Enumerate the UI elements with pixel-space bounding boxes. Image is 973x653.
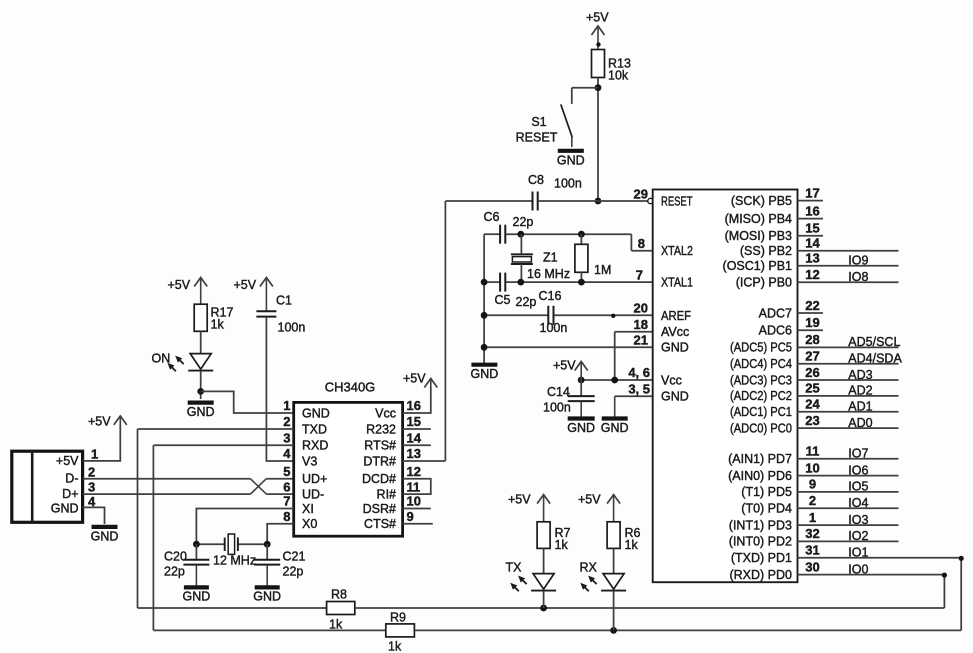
MCU pin 31 (TXD)PD1 row <box>731 543 961 566</box>
svg-text:DSR#: DSR# <box>363 502 396 516</box>
svg-text:+5V: +5V <box>586 11 609 25</box>
svg-text:10: 10 <box>407 494 421 509</box>
svg-text:C1: C1 <box>276 294 292 308</box>
svg-text:7: 7 <box>283 494 290 509</box>
svg-text:5: 5 <box>283 464 290 479</box>
svg-text:10k: 10k <box>608 69 629 83</box>
svg-text:17: 17 <box>805 185 819 200</box>
MCU pin 21 GND label <box>634 333 689 355</box>
wire XTAL2 top line right segment <box>506 233 632 235</box>
wire DTR# vertical to C8 <box>444 201 446 461</box>
svg-text:19: 19 <box>805 315 819 330</box>
junction +5V/C14/Vcc node <box>578 377 585 384</box>
svg-text:2: 2 <box>88 464 95 479</box>
capacitor C1 100n <box>256 311 276 316</box>
capacitor C14 100n <box>568 396 595 401</box>
resistor R8 1k <box>327 602 355 615</box>
svg-text:RESET: RESET <box>516 131 558 145</box>
svg-text:(ICP) PB0: (ICP) PB0 <box>736 276 792 290</box>
svg-text:(ADC3) PC3: (ADC3) PC3 <box>730 373 792 387</box>
junction crystal-left/C20 <box>193 541 200 548</box>
svg-text:RESET: RESET <box>661 194 693 208</box>
CH340G pin 2 TXD label <box>283 414 327 436</box>
wire CH340 RXD pin3 line <box>153 444 293 446</box>
svg-text:GND: GND <box>567 421 595 435</box>
svg-text:14: 14 <box>407 430 422 445</box>
wire R232 pin15 stub <box>403 428 431 430</box>
svg-text:3: 3 <box>283 430 290 445</box>
wire IO1 wrap-around (MCU TXD to R9 line) <box>960 558 962 631</box>
IC U2 CH340G body <box>294 402 403 536</box>
svg-text:100n: 100n <box>278 321 306 335</box>
svg-text:15: 15 <box>407 414 421 429</box>
crystal Y1 12 MHz <box>213 534 256 568</box>
junction AVcc/Vcc <box>611 377 618 384</box>
svg-text:Vcc: Vcc <box>375 406 396 420</box>
svg-text:100n: 100n <box>554 177 582 191</box>
capacitor C8 100n <box>533 192 538 211</box>
wire R6 to RX LED <box>613 548 615 573</box>
svg-text:C20: C20 <box>164 550 187 564</box>
MCU pin 20 AREF label <box>634 301 692 323</box>
svg-text:1k: 1k <box>329 618 343 632</box>
svg-text:+5V: +5V <box>578 493 601 507</box>
wire R13 bottom to RESET node <box>597 78 599 202</box>
svg-text:4, 6: 4, 6 <box>628 365 650 380</box>
CH340G pin 5 UD+ label <box>283 464 327 486</box>
svg-text:2: 2 <box>283 414 290 429</box>
svg-text:+5V: +5V <box>168 278 191 292</box>
wire TXD vertical <box>137 429 139 608</box>
wire XTAL1 line left segment <box>484 281 499 283</box>
wire C14 top stub <box>580 380 582 396</box>
wire R9 line left segment <box>153 629 385 631</box>
svg-text:GND: GND <box>183 590 211 604</box>
svg-text:27: 27 <box>805 349 819 364</box>
svg-text:(MISO) PB4: (MISO) PB4 <box>725 212 792 226</box>
power +5V (USB VBUS) <box>88 415 127 429</box>
MCU pin 3,5 GND label <box>628 382 688 404</box>
ground (MCU GND 3,5) <box>601 396 629 435</box>
svg-text:24: 24 <box>805 397 820 412</box>
ground (crystal rail) <box>471 365 499 382</box>
svg-text:22p: 22p <box>513 215 534 229</box>
wire USB pin1 to +5V <box>83 424 121 461</box>
svg-text:TX: TX <box>506 561 523 575</box>
wire XTAL2 jog down <box>630 234 632 251</box>
svg-text:32: 32 <box>805 526 819 541</box>
junction 1M top node <box>578 231 585 238</box>
svg-text:IO4: IO4 <box>848 496 868 510</box>
wire DSR# pin10 stub <box>403 508 431 510</box>
svg-text:V3: V3 <box>302 454 317 468</box>
junction ON LED / CH340 GND net <box>197 388 204 395</box>
junction crystal top / C6 node <box>517 231 524 238</box>
CH340G pin 8 X0 label <box>283 509 317 531</box>
svg-text:11: 11 <box>407 479 421 494</box>
svg-text:25: 25 <box>805 381 819 396</box>
svg-text:AREF: AREF <box>661 309 691 323</box>
wire GND pin21 line <box>484 346 653 348</box>
svg-text:+5V: +5V <box>553 359 576 373</box>
ground (C21) <box>253 565 281 604</box>
svg-text:10: 10 <box>805 460 819 475</box>
MCU pin 22 ADC7 row <box>759 298 823 321</box>
svg-text:3: 3 <box>88 480 95 495</box>
wire XTAL2 top line left segment <box>484 233 499 235</box>
svg-text:(RXD) PD0: (RXD) PD0 <box>729 568 792 582</box>
wire AREF line right segment <box>554 314 653 316</box>
CH340G pin 12 DCD# label <box>362 464 421 486</box>
junction IO1 wrap corner <box>959 556 964 561</box>
svg-text:(ADC2) PC2: (ADC2) PC2 <box>730 389 792 403</box>
wire AVcc to Vcc vertical <box>614 332 616 380</box>
svg-text:15: 15 <box>805 221 819 236</box>
power +5V (TX LED) <box>508 493 550 522</box>
svg-text:(AIN1) PD7: (AIN1) PD7 <box>728 452 792 466</box>
svg-text:GND: GND <box>91 529 119 543</box>
wire crystal right link <box>239 543 268 545</box>
MCU pin 11 (AIN1)PD7 row <box>728 444 898 467</box>
capacitor C6 22p <box>500 225 505 244</box>
svg-text:IO1: IO1 <box>848 546 868 560</box>
resistor 1M (crystal bias) <box>575 234 611 282</box>
wire D-/D+ crossover <box>250 479 266 494</box>
MCU pin 12 (ICP)PB0 row <box>736 267 899 290</box>
crystal Z1 16 MHz <box>511 234 533 282</box>
svg-text:RX: RX <box>580 561 598 575</box>
MCU pin 30 (RXD)PD0 row <box>729 559 944 582</box>
svg-text:100n: 100n <box>543 401 571 415</box>
svg-text:12: 12 <box>407 464 421 479</box>
svg-text:GND: GND <box>253 590 281 604</box>
svg-text:C5: C5 <box>495 293 511 307</box>
svg-text:(SCK) PB5: (SCK) PB5 <box>731 194 792 208</box>
svg-text:21: 21 <box>634 333 648 348</box>
svg-text:1k: 1k <box>555 538 569 552</box>
power +5V (C1) <box>234 278 273 312</box>
LED TX <box>506 561 557 592</box>
power +5V (Vcc) <box>553 359 588 381</box>
svg-text:GND: GND <box>51 501 79 515</box>
CH340G pin 1 GND label <box>283 398 330 420</box>
svg-text:16 MHz: 16 MHz <box>527 267 570 281</box>
svg-text:(TXD) PD1: (TXD) PD1 <box>731 551 792 565</box>
svg-text:IO8: IO8 <box>848 270 868 284</box>
junction RX LED node <box>610 627 617 634</box>
svg-text:C21: C21 <box>283 550 306 564</box>
svg-text:GND: GND <box>661 341 689 355</box>
svg-text:XTAL2: XTAL2 <box>661 244 693 258</box>
wire R8 line right segment to IO0 wrap <box>355 607 945 609</box>
svg-text:(INT0) PD2: (INT0) PD2 <box>729 535 792 549</box>
svg-text:(SS) PB2: (SS) PB2 <box>740 244 792 258</box>
wire ON LED cathode to GND <box>200 371 202 399</box>
wire CH340G Vcc pin16 to +5V <box>403 387 431 413</box>
svg-text:+5V: +5V <box>88 415 111 429</box>
wire ground rail (crystal/AREF bypass) <box>483 234 485 365</box>
svg-text:R8: R8 <box>331 588 347 602</box>
junction mark on AREF line <box>611 314 615 318</box>
wire C1 to CH340 V3 pin 4 <box>266 317 293 461</box>
svg-text:1k: 1k <box>625 538 639 552</box>
svg-text:D+: D+ <box>62 487 78 501</box>
svg-text:C6: C6 <box>484 210 500 224</box>
MCU pin 28 (ADC5)PC5 row <box>730 332 900 355</box>
MCU pin 9 (T1)PD5 row <box>741 477 898 500</box>
svg-text:(ADC4) PC4: (ADC4) PC4 <box>730 357 792 371</box>
LED ON indicator <box>152 352 214 372</box>
svg-text:9: 9 <box>809 477 816 492</box>
svg-text:22p: 22p <box>164 565 185 579</box>
svg-text:UD+: UD+ <box>302 472 327 486</box>
svg-text:Z1: Z1 <box>543 251 558 265</box>
junction GND21/rail <box>481 344 488 351</box>
svg-text:12: 12 <box>805 267 819 282</box>
MCU pin 8 XTAL2 label <box>638 236 693 258</box>
resistor R7 1k <box>537 522 570 552</box>
wire CH340 TXD pin2 line <box>138 428 294 430</box>
junction RESET/C8/R13 node <box>595 198 602 205</box>
MCU pin 19 ADC6 row <box>759 315 823 338</box>
svg-text:IO2: IO2 <box>848 529 868 543</box>
svg-text:22: 22 <box>805 298 819 313</box>
pin 29 connection circle <box>648 198 653 203</box>
svg-text:R9: R9 <box>390 611 406 625</box>
svg-text:20: 20 <box>634 301 648 316</box>
svg-text:2: 2 <box>809 493 816 508</box>
wire USB pin4 to GND <box>83 507 105 524</box>
MCU pin 27 (ADC4)PC4 row <box>730 349 902 372</box>
svg-text:IO3: IO3 <box>848 513 868 527</box>
junction C16/rail <box>481 312 488 319</box>
svg-text:RTS#: RTS# <box>364 439 396 453</box>
svg-text:IO9: IO9 <box>848 254 868 268</box>
junction R13/S1 node <box>595 84 602 91</box>
ground (C14) <box>567 401 595 435</box>
wire DCD#/RI# tie bracket <box>403 479 431 494</box>
wire X0 pin8 to crystal <box>267 524 294 544</box>
wire GND pin 3,5 stub <box>615 395 653 397</box>
MCU pin 16 (MISO)PB4 row <box>725 203 823 226</box>
svg-text:R232: R232 <box>366 422 396 436</box>
switch S1 RESET <box>516 104 573 147</box>
MCU pin 10 (AIN0)PD6 row <box>728 460 898 483</box>
svg-text:(MOSI) PB3: (MOSI) PB3 <box>725 229 792 243</box>
svg-text:3, 5: 3, 5 <box>628 382 650 397</box>
capacitor C16 100n <box>548 306 553 325</box>
svg-text:14: 14 <box>805 236 820 251</box>
junction C5/rail <box>481 279 488 286</box>
wire CTS# pin9 stub <box>403 523 433 525</box>
svg-text:30: 30 <box>805 559 819 574</box>
junction IO0 wrap corner <box>942 573 947 578</box>
svg-text:28: 28 <box>805 332 819 347</box>
svg-text:23: 23 <box>805 413 819 428</box>
svg-text:DTR#: DTR# <box>363 454 396 468</box>
svg-text:16: 16 <box>805 203 819 218</box>
svg-text:1k: 1k <box>211 318 225 332</box>
svg-text:RXD: RXD <box>302 439 328 453</box>
svg-text:XTAL1: XTAL1 <box>661 276 693 290</box>
svg-text:+5V: +5V <box>403 372 426 386</box>
power +5V (RX LED) <box>578 493 620 522</box>
svg-text:ADC6: ADC6 <box>759 324 792 338</box>
wire AREF line left segment <box>484 314 548 316</box>
svg-text:1k: 1k <box>388 640 402 653</box>
resistor R9 1k <box>386 624 415 637</box>
svg-text:11: 11 <box>806 444 820 459</box>
USB connector J1 body <box>12 451 83 522</box>
MCU pin 15 (MOSI)PB3 row <box>725 221 823 244</box>
wire IO0 wrap-around (MCU RXD to R8 line) <box>943 575 945 608</box>
MCU pin 29 RESET label <box>634 186 693 208</box>
ground (ON LED) <box>187 403 215 420</box>
wire R8 line left segment <box>138 607 327 609</box>
svg-text:(ADC0) PC0: (ADC0) PC0 <box>730 421 792 435</box>
svg-text:+5V: +5V <box>508 493 531 507</box>
svg-text:UD-: UD- <box>302 488 324 502</box>
svg-text:(T1) PD5: (T1) PD5 <box>741 485 792 499</box>
svg-text:13: 13 <box>407 446 421 461</box>
wire XTAL2 pin 8 stub <box>631 250 652 252</box>
svg-text:GND: GND <box>187 405 215 419</box>
wire DTR# pin13 to C8 <box>403 460 446 462</box>
junction 1M bottom node <box>578 279 585 286</box>
svg-text:(AIN0) PD6: (AIN0) PD6 <box>728 469 792 483</box>
MCU pin 32 (INT0)PD2 row <box>729 526 899 549</box>
svg-text:ON: ON <box>152 352 171 366</box>
svg-text:1: 1 <box>283 398 290 413</box>
CH340G pin 16 Vcc label <box>375 398 421 420</box>
svg-text:13: 13 <box>805 251 819 266</box>
wire USB D+ line <box>83 493 251 495</box>
svg-text:IO6: IO6 <box>848 463 868 477</box>
MCU pin 18 AVcc label <box>634 317 690 339</box>
ground (USB shell) <box>91 527 119 544</box>
svg-text:AD3: AD3 <box>848 368 872 382</box>
wire R7 to TX LED <box>543 548 545 573</box>
svg-text:GND: GND <box>601 421 629 435</box>
svg-text:TXD: TXD <box>302 422 327 436</box>
wire UD- stub to CH340 pin 6 <box>266 493 293 495</box>
wire C21 top stub <box>266 544 268 560</box>
svg-text:+5V: +5V <box>234 278 257 292</box>
svg-text:8: 8 <box>283 509 290 524</box>
wire R17 to ON LED <box>200 331 202 353</box>
CH340G pin 15 R232 label <box>366 414 421 436</box>
wire RTS# pin14 stub <box>403 444 431 446</box>
svg-text:100n: 100n <box>540 321 568 335</box>
svg-text:AD2: AD2 <box>848 384 872 398</box>
CH340G pin 10 DSR# label <box>363 494 421 516</box>
wire crystal left link <box>196 543 224 545</box>
wire C8 to RESET pin 29 <box>538 200 649 202</box>
CH340G pin 3 RXD label <box>283 430 328 452</box>
MCU pin 1 (INT1)PD3 row <box>729 510 899 533</box>
MCU pin 7 XTAL1 label <box>636 267 693 289</box>
wire RX LED cathode to R9 line <box>613 591 615 631</box>
LED RX <box>580 561 627 592</box>
svg-text:C8: C8 <box>528 173 544 187</box>
CH340G pin 13 DTR# label <box>363 446 421 468</box>
svg-text:29: 29 <box>634 186 648 201</box>
svg-text:AD0: AD0 <box>848 416 872 430</box>
CH340G pin 4 V3 label <box>283 446 317 468</box>
power +5V (R13 pull-up) <box>586 11 609 50</box>
svg-text:RI#: RI# <box>377 488 397 502</box>
svg-text:(INT1) PD3: (INT1) PD3 <box>729 518 792 532</box>
svg-text:C16: C16 <box>539 289 562 303</box>
svg-text:AD1: AD1 <box>848 400 872 414</box>
svg-text:26: 26 <box>805 365 819 380</box>
svg-text:AD5/SCL: AD5/SCL <box>848 335 900 349</box>
svg-text:7: 7 <box>636 267 643 282</box>
svg-text:XI: XI <box>302 502 314 516</box>
MCU pin 13 (OSC1)PB1 row <box>723 251 899 274</box>
svg-text:IO0: IO0 <box>848 562 868 576</box>
svg-text:X0: X0 <box>302 517 317 531</box>
wire RXD vertical <box>152 445 154 630</box>
svg-text:12 MHz: 12 MHz <box>213 554 256 568</box>
MCU pin 17 (SCK)PB5 row <box>731 185 823 208</box>
resistor R13 10k <box>592 50 631 83</box>
CH340G pin 6 UD- label <box>283 479 324 501</box>
power +5V (CH340G Vcc) <box>403 372 437 388</box>
junction crystal-right/C21 <box>264 541 271 548</box>
svg-text:GND: GND <box>661 390 689 404</box>
svg-text:D-: D- <box>65 472 78 486</box>
svg-text:GND: GND <box>302 406 330 420</box>
wire XTAL1 line right segment <box>506 281 653 283</box>
MCU pin 4,6 Vcc label <box>628 365 682 387</box>
svg-text:DCD#: DCD# <box>362 472 396 486</box>
svg-text:+5V: +5V <box>56 454 79 468</box>
wire S1 top contact <box>572 87 598 89</box>
wire USB D- line <box>83 478 251 480</box>
CH340G pin 7 XI label <box>283 494 314 516</box>
MCU pin 23 (ADC0)PC0 row <box>730 413 899 436</box>
svg-text:22p: 22p <box>283 565 304 579</box>
svg-text:1M: 1M <box>594 263 611 277</box>
svg-text:S1: S1 <box>531 115 546 129</box>
svg-text:(OSC1) PB1: (OSC1) PB1 <box>723 259 793 273</box>
junction TX LED node <box>540 605 547 612</box>
wire C20 top stub <box>195 544 197 560</box>
junction crystal bottom node <box>517 279 524 286</box>
wire Vcc pin 4,6 line <box>581 379 653 381</box>
svg-text:18: 18 <box>634 317 648 332</box>
CH340G pin 14 RTS# label <box>364 430 421 452</box>
svg-text:IO7: IO7 <box>848 447 868 461</box>
svg-text:Vcc: Vcc <box>661 373 682 387</box>
ground (S1) <box>557 151 585 168</box>
MCU pin 25 (ADC2)PC2 row <box>730 381 899 404</box>
svg-text:GND: GND <box>557 153 585 167</box>
resistor R17 1k <box>194 304 233 331</box>
wire ON LED node to CH340 pin 1 GND <box>201 391 294 413</box>
svg-text:IO5: IO5 <box>848 480 868 494</box>
svg-text:CH340G: CH340G <box>325 380 376 395</box>
MCU pin 14 (SS)PB2 row <box>740 236 899 259</box>
wire XI pin7 to crystal <box>196 509 293 545</box>
capacitor C5 22p <box>500 273 505 292</box>
MCU pin 24 (ADC1)PC1 row <box>730 397 899 420</box>
svg-text:AVcc: AVcc <box>661 325 689 339</box>
svg-text:ADC7: ADC7 <box>759 306 792 320</box>
svg-text:1: 1 <box>91 447 98 462</box>
svg-text:16: 16 <box>407 398 421 413</box>
